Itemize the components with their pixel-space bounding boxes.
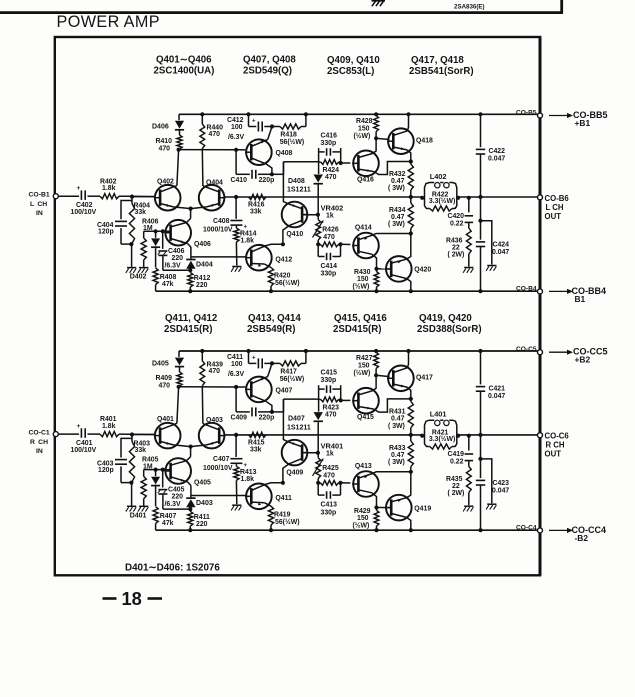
svg-text:C405: C405 xyxy=(168,487,185,494)
svg-text:Q413, Q414: Q413, Q414 xyxy=(248,313,301,324)
capacitor C410 xyxy=(231,150,275,184)
junction xyxy=(246,349,250,353)
junction xyxy=(130,432,134,436)
svg-text:Q401∼Q406: Q401∼Q406 xyxy=(156,55,212,66)
svg-text:0.47: 0.47 xyxy=(391,452,405,459)
wire: to output base xyxy=(376,375,389,376)
wire: VAS collector xyxy=(283,162,288,204)
page number 18 xyxy=(103,588,163,609)
svg-text:Q412: Q412 xyxy=(275,257,292,264)
diode D403 xyxy=(186,482,213,509)
svg-text:R418: R418 xyxy=(280,132,297,139)
junction xyxy=(234,195,238,199)
resistor R406 xyxy=(141,219,159,267)
svg-text:220: 220 xyxy=(172,255,184,262)
wire: driver emitter xyxy=(374,399,411,412)
svg-text:330p: 330p xyxy=(321,509,337,516)
svg-text:0.047: 0.047 xyxy=(492,488,509,495)
diode D404 xyxy=(186,244,213,271)
terminal CO-B1 xyxy=(53,194,58,199)
svg-text:Q404: Q404 xyxy=(206,180,223,187)
resistor R407 xyxy=(153,507,176,531)
svg-text:33k: 33k xyxy=(250,209,262,216)
inductor L402 with resistor R422 xyxy=(420,172,460,211)
svg-text:R427: R427 xyxy=(356,355,373,362)
wire: positive rail to CO-BB5 xyxy=(179,113,540,115)
wire: negative rail to CO-CC4 xyxy=(156,529,540,531)
wire: emitter to junction xyxy=(268,363,272,376)
svg-text:D408: D408 xyxy=(288,178,305,185)
input label CO-C1 xyxy=(29,430,50,456)
svg-text:220p: 220p xyxy=(259,415,275,422)
junction xyxy=(316,481,320,485)
svg-text:D404: D404 xyxy=(196,262,213,269)
transistor Q409 xyxy=(282,440,309,477)
svg-text:R430: R430 xyxy=(354,269,371,276)
terminal CO-B4 xyxy=(516,286,543,294)
junction xyxy=(316,242,320,246)
resistor R423 xyxy=(319,397,341,419)
svg-text:2SD388(SorR): 2SD388(SorR) xyxy=(417,324,482,335)
capacitor C409 xyxy=(231,387,275,422)
svg-text:R408: R408 xyxy=(160,274,177,281)
svg-text:/6.3V: /6.3V xyxy=(165,263,181,270)
svg-text:Q407: Q407 xyxy=(276,387,293,394)
svg-text:1.8k: 1.8k xyxy=(102,423,116,430)
svg-text:Q415: Q415 xyxy=(357,414,374,421)
svg-text:470: 470 xyxy=(209,368,221,375)
svg-text:2SC1400(UA): 2SC1400(UA) xyxy=(154,66,215,77)
wire: output emitter xyxy=(406,234,410,260)
note D401~D406: 1S2076 xyxy=(125,563,220,574)
svg-text:R409: R409 xyxy=(156,375,173,382)
svg-text:470: 470 xyxy=(323,472,335,479)
svg-text:2SD549(Q): 2SD549(Q) xyxy=(243,66,292,77)
resistor R427 xyxy=(354,349,379,377)
svg-text:47k: 47k xyxy=(162,520,174,527)
svg-text:R435: R435 xyxy=(446,476,463,483)
resistor R403 xyxy=(129,435,150,483)
wire xyxy=(121,481,133,506)
transistor label 2SA836(E) (upper schematic) xyxy=(454,4,485,11)
svg-text:Q419, Q420: Q419, Q420 xyxy=(419,313,472,324)
svg-text:C412: C412 xyxy=(227,117,244,124)
svg-text:22: 22 xyxy=(452,483,460,490)
svg-text:R416: R416 xyxy=(248,202,265,209)
svg-text:Q418: Q418 xyxy=(416,138,433,145)
ground xyxy=(463,268,473,273)
capacitor C408 xyxy=(203,197,248,234)
capacitor C403 xyxy=(97,438,132,482)
resistor R429 xyxy=(353,508,379,533)
wire: output collector xyxy=(406,279,413,294)
svg-text:R420: R420 xyxy=(274,273,291,280)
wire: output collector xyxy=(406,517,413,532)
transistor Q415 xyxy=(352,388,379,421)
svg-text:0.047: 0.047 xyxy=(488,156,505,163)
svg-text:CO-B5: CO-B5 xyxy=(516,109,537,116)
svg-text:2SB549(R): 2SB549(R) xyxy=(247,324,295,335)
svg-text:+: + xyxy=(252,356,256,362)
input label CO-B1 xyxy=(29,192,50,217)
svg-text:C424: C424 xyxy=(493,242,510,249)
wire: output rail xyxy=(225,434,540,436)
capacitor C401 xyxy=(71,423,97,454)
svg-text:220p: 220p xyxy=(259,177,275,184)
svg-text:(½W): (½W) xyxy=(353,283,370,291)
svg-text:(½W): (½W) xyxy=(353,522,370,530)
diode D407 xyxy=(287,412,323,453)
svg-text:R429: R429 xyxy=(354,508,371,515)
svg-text:C409: C409 xyxy=(231,415,248,422)
svg-text:470: 470 xyxy=(323,234,335,241)
capacitor C402 xyxy=(71,185,97,216)
svg-text:0.047: 0.047 xyxy=(492,249,509,256)
svg-text:0.22: 0.22 xyxy=(450,459,464,466)
resistor R413 xyxy=(234,465,257,505)
svg-text:VR402: VR402 xyxy=(321,204,344,213)
transistor Q407 xyxy=(245,377,292,403)
resistor R431 xyxy=(388,399,413,437)
svg-text:L CH: L CH xyxy=(30,201,47,208)
svg-text:+: + xyxy=(77,185,81,192)
svg-text:Q417, Q418: Q417, Q418 xyxy=(411,55,464,66)
svg-text:150: 150 xyxy=(357,276,369,283)
svg-text:( 3W): ( 3W) xyxy=(388,185,405,192)
ground xyxy=(486,504,496,509)
svg-text:R413: R413 xyxy=(240,469,257,476)
svg-text:Q409: Q409 xyxy=(286,469,303,476)
svg-text:C414: C414 xyxy=(321,263,338,270)
svg-text:150: 150 xyxy=(357,515,369,522)
svg-text:R426: R426 xyxy=(322,227,339,234)
header label Q411, Q412 2SD415(R) xyxy=(164,313,217,335)
wire: emitters to current source xyxy=(173,445,206,461)
resistor R408 xyxy=(153,268,176,291)
svg-text:CO-B6: CO-B6 xyxy=(545,194,570,203)
svg-text:+: + xyxy=(252,119,256,125)
svg-text:D403: D403 xyxy=(196,500,213,507)
svg-text:C422: C422 xyxy=(489,148,506,155)
svg-text:(½W): (½W) xyxy=(354,132,371,140)
wire: output emitter xyxy=(407,150,413,164)
wire: to output base xyxy=(376,138,389,139)
svg-text:C410: C410 xyxy=(231,177,248,184)
wire: driver emitter xyxy=(374,162,411,175)
svg-text:L402: L402 xyxy=(430,172,447,181)
wire: to driver base xyxy=(341,482,351,484)
svg-text:( 2W): ( 2W) xyxy=(448,252,465,259)
svg-text:( 2W): ( 2W) xyxy=(448,490,465,497)
capacitor C407 xyxy=(203,435,248,472)
svg-text:+B1: +B1 xyxy=(575,118,591,128)
svg-text:C423: C423 xyxy=(493,480,510,487)
capacitor C412 xyxy=(227,114,272,141)
transistor Q420 xyxy=(385,256,431,282)
junction xyxy=(130,195,134,199)
svg-text:2SC853(L): 2SC853(L) xyxy=(327,66,374,77)
wire: output collector xyxy=(406,112,410,131)
svg-text:Q410: Q410 xyxy=(286,231,303,238)
wire: VAS base xyxy=(301,213,320,217)
svg-text:R424: R424 xyxy=(323,167,340,174)
svg-text:C401: C401 xyxy=(76,440,93,447)
connector arrow CO-BB5 xyxy=(549,110,608,128)
wire: to driver base xyxy=(341,243,351,245)
svg-text:220: 220 xyxy=(196,282,208,289)
capacitor C406 xyxy=(158,231,185,270)
wire xyxy=(265,483,283,485)
svg-text:+B2: +B2 xyxy=(575,355,591,365)
junction xyxy=(270,124,274,128)
svg-text:R CH: R CH xyxy=(30,439,48,446)
svg-text:R415: R415 xyxy=(248,440,265,447)
svg-text:Q408: Q408 xyxy=(276,150,293,157)
svg-text:100: 100 xyxy=(231,124,243,131)
svg-text:1000/10V: 1000/10V xyxy=(203,227,233,234)
wire: VAS collector xyxy=(283,399,288,442)
svg-text:R411: R411 xyxy=(194,514,210,521)
svg-text:CO-C5: CO-C5 xyxy=(516,346,537,353)
wire: VAS base xyxy=(301,451,320,455)
wire xyxy=(163,268,193,272)
transistor Q417 xyxy=(387,366,433,392)
svg-text:100/10V: 100/10V xyxy=(71,209,97,216)
svg-text:Q419: Q419 xyxy=(414,505,431,512)
svg-text:220: 220 xyxy=(196,521,208,528)
wire: driver emitter xyxy=(373,234,411,236)
terminal CO-C1 xyxy=(53,432,58,437)
transistor Q405 xyxy=(164,458,211,486)
wire: bias line xyxy=(144,229,171,233)
svg-text:D406: D406 xyxy=(152,124,169,131)
ground xyxy=(231,505,241,510)
wire: output collector xyxy=(406,349,410,368)
svg-text:120p: 120p xyxy=(98,229,114,236)
transistor Q403 xyxy=(199,417,226,448)
capacitor C414 xyxy=(318,242,342,277)
terminal CO-B5 xyxy=(516,109,543,118)
header label Q419, Q420 2SD388(SorR) xyxy=(417,313,482,335)
connector arrow CO-CC4 xyxy=(549,525,606,543)
wire: collector node xyxy=(266,399,319,414)
svg-text:D401: D401 xyxy=(130,512,147,519)
svg-text:22: 22 xyxy=(452,245,460,252)
svg-text:1k: 1k xyxy=(326,213,334,220)
wire: input line xyxy=(59,433,155,435)
svg-text:100: 100 xyxy=(231,361,243,368)
svg-text:1S1211: 1S1211 xyxy=(287,187,311,194)
junction xyxy=(270,361,274,365)
capacitor C423 xyxy=(476,435,510,532)
svg-text:Q402: Q402 xyxy=(157,179,174,186)
ground xyxy=(138,506,148,511)
wire: positive rail to CO-CC5 xyxy=(179,350,540,352)
svg-text:150: 150 xyxy=(358,362,370,369)
svg-text:+: + xyxy=(77,423,81,430)
resistor R414 xyxy=(234,227,257,266)
resistor R412 xyxy=(188,270,211,293)
svg-text:CO-C6: CO-C6 xyxy=(545,432,570,441)
resistor R405 xyxy=(141,457,159,506)
svg-text:CO-C4: CO-C4 xyxy=(516,525,537,532)
wire: to output base xyxy=(377,268,392,270)
transistor Q413 xyxy=(352,463,379,497)
svg-text:Q401: Q401 xyxy=(157,416,174,423)
svg-text:56(½W): 56(½W) xyxy=(275,279,300,287)
ground xyxy=(486,266,496,271)
svg-text:220: 220 xyxy=(172,494,184,501)
svg-text:R410: R410 xyxy=(156,138,173,145)
resistor R415 xyxy=(248,432,266,453)
svg-text:L CH: L CH xyxy=(546,203,564,212)
resistor R401 xyxy=(100,416,119,437)
svg-text:Q417: Q417 xyxy=(416,375,433,382)
wire: output emitter xyxy=(406,472,410,498)
svg-text:150: 150 xyxy=(358,126,370,133)
resistor R430 xyxy=(353,269,379,294)
svg-text:C420: C420 xyxy=(448,213,465,220)
svg-text:R423: R423 xyxy=(323,405,340,412)
ground xyxy=(138,268,148,273)
wire xyxy=(265,244,283,246)
capacitor C413 xyxy=(318,481,342,517)
diode D408 xyxy=(287,175,323,215)
resistor R409 xyxy=(156,372,183,390)
variable resistor VR402 xyxy=(313,204,344,245)
svg-text:100/10V: 100/10V xyxy=(71,447,97,454)
transistor Q404 xyxy=(199,180,226,211)
wire: collector node xyxy=(266,162,319,177)
svg-text:0.47: 0.47 xyxy=(391,416,405,423)
svg-text:/6.3V: /6.3V xyxy=(165,501,181,508)
svg-text:R433: R433 xyxy=(389,445,406,452)
wire: input line xyxy=(59,195,155,197)
transistor Q401 xyxy=(154,416,181,448)
svg-text:D402: D402 xyxy=(130,274,147,281)
wire xyxy=(121,242,133,267)
wire xyxy=(163,507,193,511)
svg-text:3.3(½W): 3.3(½W) xyxy=(429,197,455,205)
svg-text:C408: C408 xyxy=(213,218,230,225)
diode D406 xyxy=(152,114,184,135)
svg-text:R434: R434 xyxy=(389,207,406,214)
svg-text:Q416: Q416 xyxy=(357,177,374,184)
terminal CO-C6 xyxy=(538,432,570,459)
junction xyxy=(234,433,238,437)
resistor R416 xyxy=(248,194,266,215)
svg-text:R425: R425 xyxy=(322,465,339,472)
svg-text:C407: C407 xyxy=(213,456,230,463)
svg-text:56(½W): 56(½W) xyxy=(280,375,305,383)
header label Q409, Q410 2SC853(L) xyxy=(327,55,380,77)
svg-text:R432: R432 xyxy=(389,171,406,178)
svg-text:C411: C411 xyxy=(227,354,243,361)
svg-text:R407: R407 xyxy=(160,513,177,520)
svg-text:Q407, Q408: Q407, Q408 xyxy=(243,55,296,66)
header label Q417, Q418 2SB541(SorR) xyxy=(409,55,474,77)
wire: output emitter xyxy=(407,387,413,401)
svg-text:470: 470 xyxy=(325,174,337,181)
svg-text:C406: C406 xyxy=(168,248,185,255)
svg-text:470: 470 xyxy=(159,146,171,153)
svg-text:2SD415(R): 2SD415(R) xyxy=(164,324,212,335)
resistor R420 xyxy=(264,264,299,293)
svg-text:33k: 33k xyxy=(250,447,262,454)
ground xyxy=(126,506,136,511)
resistor R417 xyxy=(272,349,308,383)
connector arrow CO-BB4 xyxy=(549,286,606,304)
svg-text:IN: IN xyxy=(36,210,43,217)
wire: emitter to junction xyxy=(268,127,272,140)
svg-text:470: 470 xyxy=(325,412,337,419)
svg-text:IN: IN xyxy=(36,448,43,455)
svg-text:1k: 1k xyxy=(326,451,334,458)
svg-text:D401∼D406: 1S2076: D401∼D406: 1S2076 xyxy=(125,563,220,574)
svg-text:330p: 330p xyxy=(321,271,337,278)
svg-text:POWER AMP: POWER AMP xyxy=(57,13,160,31)
svg-text:( 3W): ( 3W) xyxy=(388,459,405,466)
transistor Q411 xyxy=(245,484,292,510)
variable resistor VR401 xyxy=(313,442,344,483)
capacitor C424 xyxy=(476,197,510,293)
resistor R434 xyxy=(388,197,413,236)
resistor R411 xyxy=(188,509,210,532)
connector arrow CO-CC5 xyxy=(549,347,608,365)
diode D405 xyxy=(152,351,184,372)
capacitor C416 xyxy=(319,133,341,156)
resistor R419 xyxy=(264,503,299,533)
svg-text:1000/10V: 1000/10V xyxy=(203,465,233,472)
svg-text:R414: R414 xyxy=(240,231,257,238)
capacitor C404 xyxy=(97,201,132,245)
svg-text:(½W): (½W) xyxy=(354,369,371,377)
svg-text:18: 18 xyxy=(122,588,142,609)
svg-text:/6.3V: /6.3V xyxy=(228,371,244,378)
resistor R432 xyxy=(388,162,413,200)
svg-text:OUT: OUT xyxy=(545,450,562,459)
capacitor C411 xyxy=(227,351,272,378)
transistor Q402 xyxy=(154,179,181,211)
svg-text:L401: L401 xyxy=(430,410,447,419)
svg-text:R417: R417 xyxy=(280,369,297,376)
wire: to output base xyxy=(377,507,392,509)
svg-text:C402: C402 xyxy=(76,202,93,209)
svg-text:CO-B4: CO-B4 xyxy=(516,286,537,293)
wire: emitters to current source xyxy=(173,207,206,223)
resistor R424 xyxy=(319,160,341,181)
svg-text:Q405: Q405 xyxy=(194,480,211,487)
svg-text:R419: R419 xyxy=(274,511,291,518)
svg-text:1.8k: 1.8k xyxy=(241,476,255,483)
resistor R402 xyxy=(100,179,119,199)
terminal CO-C5 xyxy=(516,346,543,355)
wire: VAS emitter xyxy=(281,464,289,485)
svg-text:56(½W): 56(½W) xyxy=(280,138,305,146)
svg-text:C416: C416 xyxy=(321,133,338,140)
svg-text:0.47: 0.47 xyxy=(391,214,405,221)
transistor Q410 xyxy=(282,202,309,238)
svg-text:1S1211: 1S1211 xyxy=(287,424,311,431)
wire: combo bars xyxy=(319,148,351,174)
resistor R440 xyxy=(200,112,223,186)
header label Q407, Q408 2SD549(Q) xyxy=(243,55,296,77)
capacitor C420 xyxy=(448,196,474,228)
svg-text:C421: C421 xyxy=(489,385,506,392)
transistor Q416 xyxy=(352,151,379,184)
svg-text:Q409, Q410: Q409, Q410 xyxy=(327,55,380,66)
diode D402 xyxy=(130,231,160,280)
